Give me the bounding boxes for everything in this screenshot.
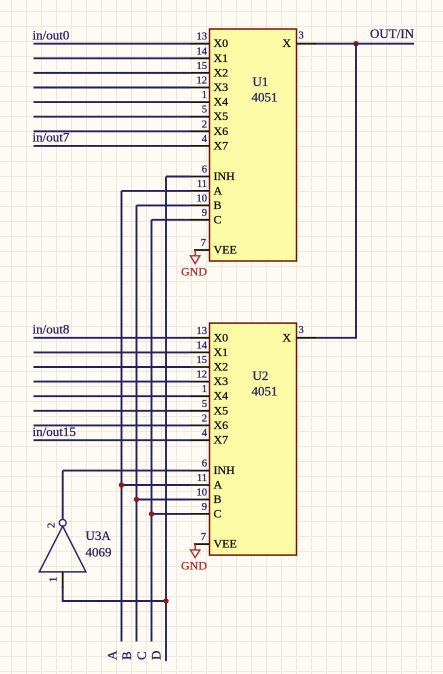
wire U1 A bbox=[122, 190, 191, 192]
svg-text:2: 2 bbox=[47, 523, 58, 528]
svg-text:12: 12 bbox=[197, 370, 208, 381]
wire row12 bbox=[34, 381, 191, 383]
U2 pin 15 X2 bbox=[190, 355, 228, 374]
svg-text:U1: U1 bbox=[253, 74, 269, 89]
U1 pin 14 X1 bbox=[190, 46, 228, 65]
svg-text:13: 13 bbox=[197, 326, 208, 337]
wire row14 bbox=[34, 410, 191, 412]
ground GND under U2 bbox=[181, 544, 207, 572]
U2 pin 10 B bbox=[190, 488, 222, 507]
U1 pin 6 INH bbox=[190, 165, 235, 184]
svg-text:X7: X7 bbox=[214, 433, 229, 447]
svg-text:U2: U2 bbox=[253, 368, 269, 383]
U1 pin 7 VEE bbox=[194, 238, 237, 257]
svg-text:15: 15 bbox=[197, 355, 208, 366]
wire in/out15 net bbox=[34, 439, 191, 441]
wire row11 bbox=[34, 366, 191, 368]
U1 pin 9 C bbox=[190, 208, 222, 227]
wire row13 bbox=[34, 395, 191, 397]
svg-text:X1: X1 bbox=[214, 345, 229, 359]
U2 pin 14 X1 bbox=[190, 340, 228, 359]
U1 pin 1 X4 bbox=[190, 90, 228, 109]
svg-text:X0: X0 bbox=[214, 36, 229, 50]
svg-text:7: 7 bbox=[201, 532, 206, 543]
svg-text:X5: X5 bbox=[214, 403, 229, 417]
svg-text:6: 6 bbox=[202, 459, 207, 470]
svg-text:X2: X2 bbox=[214, 65, 229, 79]
svg-text:14: 14 bbox=[197, 340, 208, 351]
svg-text:9: 9 bbox=[202, 208, 207, 219]
svg-text:C: C bbox=[214, 506, 222, 520]
svg-text:X3: X3 bbox=[214, 374, 229, 388]
wire vertical net B bbox=[136, 205, 138, 641]
wire row7 bbox=[34, 130, 191, 132]
svg-text:3: 3 bbox=[299, 31, 304, 42]
wire U2 A stub bbox=[122, 484, 191, 486]
svg-text:B: B bbox=[214, 492, 222, 506]
op-amp U2 body bbox=[210, 323, 297, 555]
svg-text:14: 14 bbox=[197, 46, 208, 57]
U1 pin 5 X5 bbox=[190, 105, 228, 124]
svg-text:X7: X7 bbox=[214, 138, 229, 152]
U1 pin 11 A bbox=[190, 179, 223, 198]
U3A pin 1 bbox=[62, 572, 64, 588]
svg-text:X3: X3 bbox=[214, 80, 229, 94]
svg-text:GND: GND bbox=[181, 559, 207, 573]
node junction C bbox=[149, 511, 154, 516]
svg-text:5: 5 bbox=[202, 399, 207, 410]
wire row4 bbox=[34, 87, 191, 89]
U1 pin 12 X3 bbox=[190, 76, 228, 95]
svg-text:X4: X4 bbox=[214, 95, 229, 109]
wire vertical net C bbox=[151, 220, 153, 642]
svg-text:in/out7: in/out7 bbox=[33, 130, 70, 145]
svg-text:X6: X6 bbox=[214, 418, 229, 432]
svg-text:C: C bbox=[214, 212, 222, 226]
U2 pin 7 VEE bbox=[194, 532, 237, 551]
svg-text:9: 9 bbox=[202, 502, 207, 513]
wire in/out0 net bbox=[34, 43, 191, 45]
U1 pin 2 X6 bbox=[190, 119, 228, 138]
U2 pin 2 X6 bbox=[190, 413, 228, 432]
wire vertical net D bbox=[165, 177, 167, 662]
node junction A bbox=[119, 482, 124, 487]
wire OUT/IN vertical to U2 bbox=[317, 44, 357, 338]
U1 pin 15 X2 bbox=[190, 61, 228, 80]
svg-text:in/out0: in/out0 bbox=[33, 28, 70, 43]
svg-text:4: 4 bbox=[202, 428, 208, 439]
wire row6 bbox=[34, 116, 191, 118]
svg-text:OUT/IN: OUT/IN bbox=[370, 26, 415, 41]
wire U1 C bbox=[152, 219, 191, 221]
svg-text:7: 7 bbox=[201, 238, 206, 249]
svg-text:VEE: VEE bbox=[214, 537, 237, 551]
U2 pin 6 INH bbox=[190, 459, 235, 478]
U1 pin 3 X output bbox=[282, 31, 316, 51]
U1 pin 13 X0 bbox=[190, 32, 228, 51]
wire row15 bbox=[34, 424, 191, 426]
svg-text:INH: INH bbox=[214, 463, 236, 477]
U2 pin 9 C bbox=[190, 502, 222, 521]
wire U1 B bbox=[137, 204, 191, 206]
U2 pin 4 X7 bbox=[190, 428, 228, 447]
U2 pin 11 A bbox=[190, 473, 223, 492]
svg-text:5: 5 bbox=[202, 105, 207, 116]
svg-text:B: B bbox=[119, 651, 134, 660]
svg-text:15: 15 bbox=[197, 61, 208, 72]
svg-text:D: D bbox=[149, 651, 164, 660]
svg-text:X: X bbox=[282, 36, 291, 50]
svg-text:X6: X6 bbox=[214, 124, 229, 138]
svg-text:INH: INH bbox=[214, 169, 236, 183]
svg-text:4069: 4069 bbox=[86, 545, 112, 560]
U2 pin 12 X3 bbox=[190, 370, 228, 389]
svg-text:A: A bbox=[105, 650, 120, 660]
svg-text:B: B bbox=[214, 198, 222, 212]
wire U1 INH bbox=[166, 176, 190, 178]
wire U2 B stub bbox=[137, 499, 191, 501]
svg-text:A: A bbox=[214, 183, 223, 197]
svg-text:2: 2 bbox=[202, 119, 207, 130]
svg-text:1: 1 bbox=[202, 384, 207, 395]
svg-text:in/out8: in/out8 bbox=[33, 322, 70, 337]
svg-text:GND: GND bbox=[181, 265, 207, 279]
svg-text:10: 10 bbox=[197, 488, 208, 499]
svg-text:X1: X1 bbox=[214, 51, 229, 65]
svg-text:U3A: U3A bbox=[86, 528, 112, 543]
wire row2 bbox=[34, 57, 191, 59]
svg-text:A: A bbox=[214, 478, 223, 492]
svg-text:C: C bbox=[134, 651, 149, 660]
wire U1 X to OUT/IN bbox=[317, 43, 415, 45]
wire U2 C stub bbox=[152, 513, 191, 515]
wire row3 bbox=[34, 72, 191, 74]
svg-text:VEE: VEE bbox=[214, 243, 237, 257]
ground GND under U1 bbox=[181, 250, 207, 279]
svg-text:12: 12 bbox=[197, 76, 208, 87]
svg-text:10: 10 bbox=[197, 193, 208, 204]
U2 pin 5 X5 bbox=[190, 399, 228, 418]
wire U2 INH from inverter bbox=[63, 470, 190, 472]
wire row5 bbox=[34, 101, 191, 103]
wire in/out8 net bbox=[34, 337, 191, 339]
svg-text:4051: 4051 bbox=[252, 384, 278, 399]
U1 pin 4 X7 bbox=[190, 134, 228, 153]
node junction OUT/IN bbox=[353, 41, 358, 46]
wire inverter input to net D bbox=[63, 586, 166, 601]
svg-text:6: 6 bbox=[202, 165, 207, 176]
svg-text:13: 13 bbox=[197, 32, 208, 43]
svg-text:in/out15: in/out15 bbox=[33, 424, 76, 439]
node junction D bbox=[163, 598, 168, 603]
svg-text:11: 11 bbox=[197, 473, 207, 484]
U2 pin 3 X output bbox=[282, 325, 316, 345]
U2 pin 13 X0 bbox=[190, 326, 228, 345]
svg-text:X: X bbox=[282, 330, 291, 344]
svg-text:2: 2 bbox=[202, 413, 207, 424]
node junction B bbox=[134, 497, 139, 502]
svg-text:4051: 4051 bbox=[252, 90, 278, 105]
svg-text:X4: X4 bbox=[214, 389, 229, 403]
svg-text:1: 1 bbox=[49, 577, 60, 582]
U1 pin 10 B bbox=[190, 193, 222, 212]
svg-text:1: 1 bbox=[202, 90, 207, 101]
svg-text:3: 3 bbox=[299, 325, 304, 336]
svg-text:11: 11 bbox=[197, 179, 207, 190]
wire in/out7 net bbox=[34, 145, 191, 147]
U2 pin 1 X4 bbox=[190, 384, 228, 403]
wire row10 bbox=[34, 351, 191, 353]
op-amp U1 body bbox=[210, 29, 297, 261]
svg-text:X0: X0 bbox=[214, 330, 229, 344]
wire inverter output to U2 INH bbox=[62, 471, 64, 520]
svg-text:X5: X5 bbox=[214, 109, 229, 123]
svg-text:X2: X2 bbox=[214, 360, 229, 374]
transistor U3A inverter triangle bbox=[39, 526, 86, 572]
svg-text:4: 4 bbox=[202, 134, 208, 145]
wire vertical net A bbox=[121, 191, 123, 642]
transistor U3A inverter bubble bbox=[59, 519, 66, 526]
